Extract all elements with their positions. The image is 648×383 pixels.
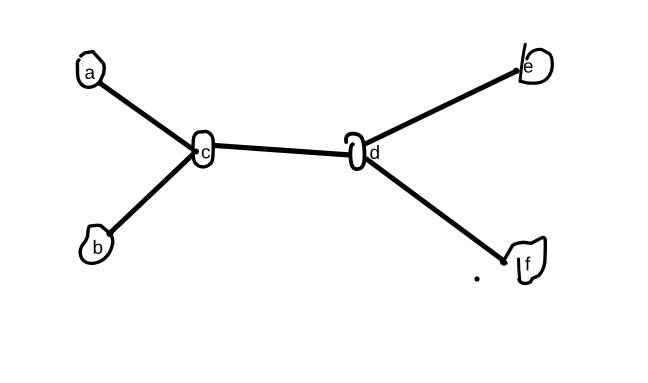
node a label — [85, 69, 95, 79]
node c blob — [193, 131, 213, 167]
node e label — [524, 62, 533, 72]
wire edge d-f — [367, 159, 505, 261]
wire edge c-b — [110, 152, 196, 234]
node f label — [525, 257, 530, 271]
node dot at e line end — [513, 68, 519, 74]
node dot at f line end — [500, 257, 508, 265]
node dot at a line start — [96, 79, 103, 86]
node b label — [94, 240, 103, 254]
node f blob — [505, 238, 545, 284]
node e blob — [521, 49, 553, 83]
node a blob — [77, 52, 104, 88]
node b blob — [80, 225, 113, 263]
node stray dot — [474, 276, 479, 281]
node f inner stroke — [519, 259, 520, 282]
node e left stroke — [520, 44, 525, 81]
node c label — [202, 148, 210, 158]
node d label — [370, 145, 379, 159]
wire edge d-e — [366, 71, 517, 144]
node junction dot on c left edge — [193, 149, 199, 155]
wire edge a-c — [99, 83, 196, 152]
node junction at c — [193, 148, 200, 155]
wire edge c-d — [213, 145, 351, 155]
node junction dot at b — [106, 230, 113, 237]
node d blob — [346, 134, 365, 169]
